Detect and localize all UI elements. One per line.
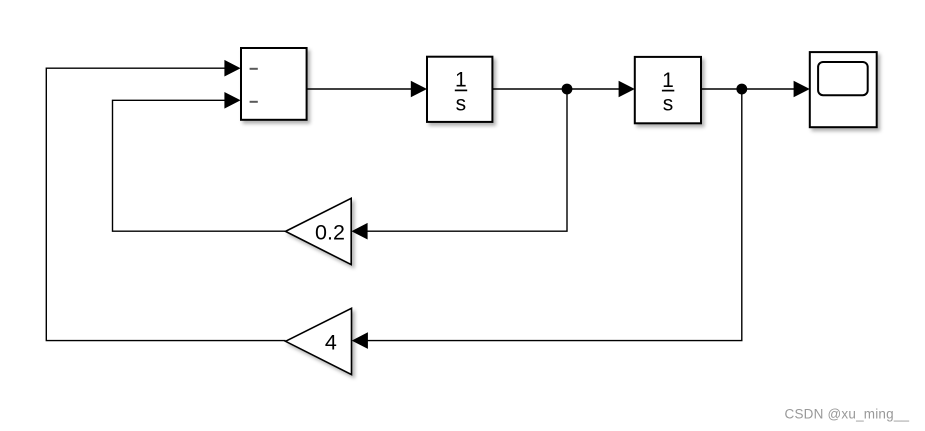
svg-text:0.2: 0.2 (315, 221, 345, 245)
svg-text:4: 4 (325, 330, 337, 354)
svg-text:s: s (456, 92, 467, 115)
svg-text:CSDN @xu_ming__: CSDN @xu_ming__ (785, 406, 910, 421)
svg-text:s: s (663, 93, 674, 116)
svg-text:1: 1 (455, 69, 467, 92)
svg-text:1: 1 (662, 69, 674, 92)
